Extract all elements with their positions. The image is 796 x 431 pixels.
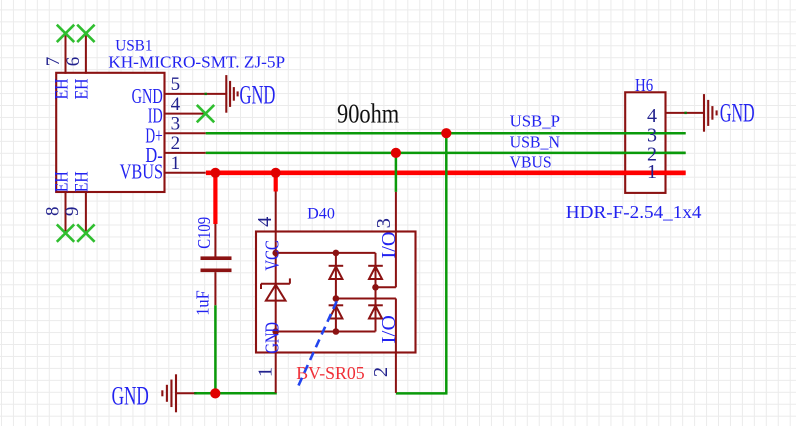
svg-text:GND: GND: [720, 98, 755, 128]
svg-text:4: 4: [647, 105, 657, 127]
svg-text:GND: GND: [262, 322, 284, 354]
svg-text:VBUS: VBUS: [510, 152, 552, 171]
svg-text:EH: EH: [71, 171, 92, 192]
svg-text:6: 6: [63, 57, 84, 67]
svg-text:EH: EH: [71, 78, 92, 99]
svg-text:I/O: I/O: [378, 315, 400, 344]
svg-text:C109: C109: [194, 217, 214, 249]
svg-text:USB_N: USB_N: [510, 133, 560, 152]
svg-text:4: 4: [254, 217, 276, 227]
svg-text:3: 3: [171, 113, 181, 134]
svg-text:KH-MICRO-SMT. ZJ-5P: KH-MICRO-SMT. ZJ-5P: [108, 52, 285, 71]
svg-text:I/O: I/O: [378, 232, 400, 259]
svg-text:90ohm: 90ohm: [337, 99, 399, 129]
svg-text:GND: GND: [112, 380, 149, 410]
svg-text:2: 2: [370, 367, 392, 377]
svg-text:8: 8: [43, 207, 64, 217]
svg-text:HDR-F-2.54_1x4: HDR-F-2.54_1x4: [566, 202, 702, 222]
svg-text:EH: EH: [52, 78, 73, 99]
svg-text:1uF: 1uF: [192, 290, 212, 316]
svg-text:9: 9: [62, 207, 83, 217]
svg-text:3: 3: [373, 218, 395, 228]
svg-text:4: 4: [171, 94, 181, 115]
svg-text:5: 5: [171, 74, 181, 95]
svg-text:1: 1: [171, 153, 181, 174]
svg-text:VCC: VCC: [262, 240, 284, 271]
svg-text:EH: EH: [52, 171, 73, 192]
svg-text:USB_P: USB_P: [510, 112, 560, 131]
svg-text:7: 7: [43, 57, 64, 67]
svg-text:H6: H6: [635, 75, 653, 95]
svg-text:1: 1: [647, 161, 657, 183]
svg-text:GND: GND: [240, 79, 276, 109]
svg-text:1: 1: [255, 367, 277, 377]
svg-text:VBUS: VBUS: [120, 160, 163, 184]
svg-text:D40: D40: [307, 206, 335, 223]
svg-text:2: 2: [171, 133, 181, 154]
